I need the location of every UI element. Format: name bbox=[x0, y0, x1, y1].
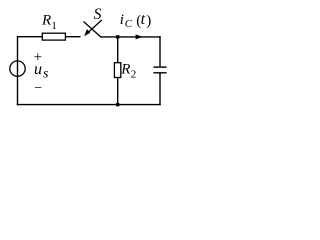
current arrow i_C bbox=[136, 34, 143, 39]
junction node bottom bbox=[116, 103, 119, 106]
svg-text:C: C bbox=[125, 18, 133, 30]
wire: R2 branch vertical bbox=[117, 37, 119, 105]
switch S: blade line bbox=[84, 22, 101, 38]
junction node top bbox=[116, 35, 119, 38]
wire: left vertical bbox=[17, 36, 19, 105]
svg-text:R: R bbox=[120, 61, 130, 77]
svg-text:): ) bbox=[146, 13, 151, 29]
resistor R1 bbox=[42, 33, 65, 40]
capacitor: top plate bbox=[153, 66, 166, 68]
svg-text:1: 1 bbox=[51, 20, 57, 32]
switch S: arrowhead bbox=[84, 29, 90, 36]
switch S: motion line with arrowhead bbox=[88, 20, 102, 33]
svg-text:t: t bbox=[141, 11, 146, 28]
wire: top-left segment from corner to R1 bbox=[18, 36, 44, 38]
wire: right lower (capacitor down to corner) bbox=[159, 73, 161, 106]
resistor R2 bbox=[114, 63, 120, 78]
wire: right upper (corner down to capacitor) bbox=[159, 36, 161, 67]
svg-text:s: s bbox=[43, 66, 49, 81]
svg-text:2: 2 bbox=[131, 68, 137, 80]
svg-text:u: u bbox=[34, 61, 42, 78]
svg-text:S: S bbox=[94, 6, 102, 23]
capacitor: bottom plate bbox=[153, 72, 166, 74]
svg-text:i: i bbox=[120, 12, 124, 28]
svg-text:−: − bbox=[34, 81, 42, 96]
svg-text:R: R bbox=[41, 13, 51, 29]
wire: R1 to switch bbox=[65, 36, 80, 38]
voltage source us (circle) bbox=[10, 61, 25, 76]
wire: top-right segment from switch to corner bbox=[100, 36, 160, 38]
wire: bottom bbox=[17, 104, 161, 106]
